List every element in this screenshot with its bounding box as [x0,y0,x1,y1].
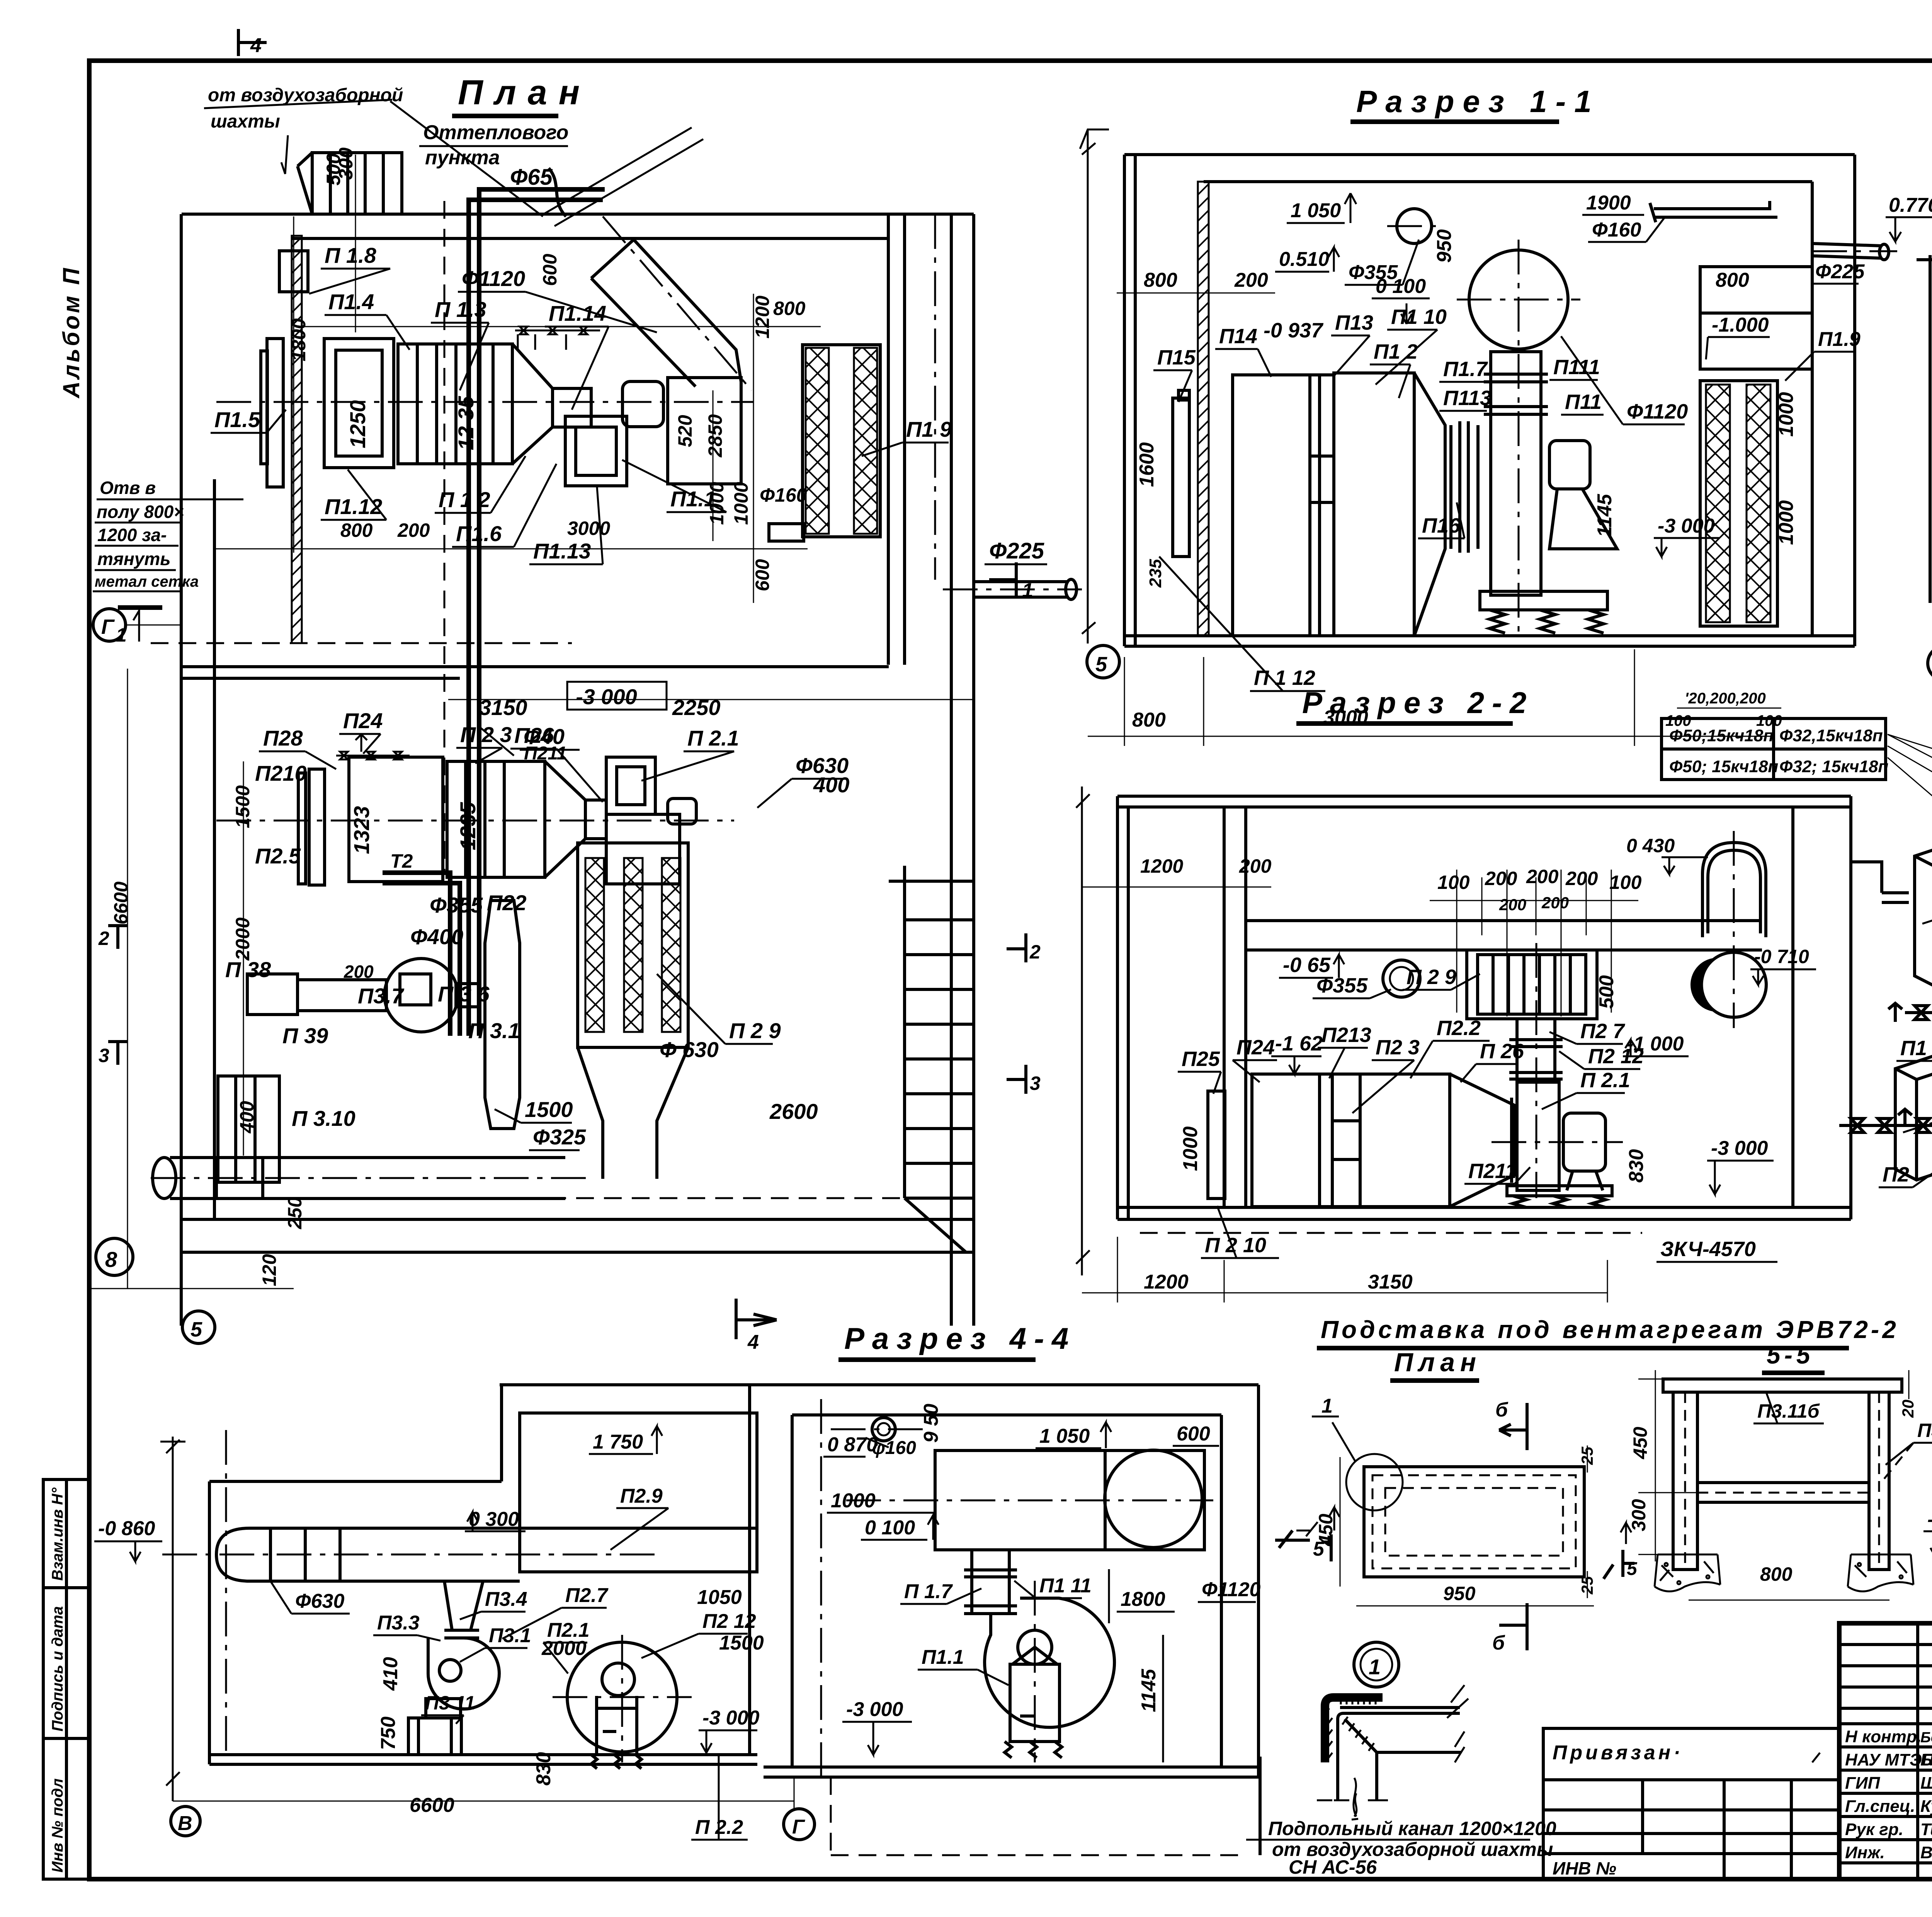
mark 1 top [1312,1416,1339,1418]
bubble 5 3-3 [1928,646,1932,680]
left reference line with 5 bubble [1080,129,1109,644]
svg-text:1145: 1145 [1138,1668,1160,1712]
svg-text:235: 235 [1146,559,1165,588]
svg-text:Подставка под вентагрегат ЭРВ7: Подставка под вентагрегат ЭРВ72-2 [1321,1316,1899,1343]
П2.9 housing 4-4 [520,1413,757,1572]
svg-text:800: 800 [340,519,373,541]
svg-text:1200: 1200 [1144,1271,1189,1293]
П1.9 right box [1700,267,1812,369]
svg-text:1235: 1235 [456,802,480,850]
svg-text:600: 600 [539,254,561,286]
svg-text:П11: П11 [1565,390,1602,414]
section mark 1 right [989,562,1016,597]
svg-text:6600: 6600 [410,1794,454,1817]
svg-text:-0 710: -0 710 [1754,946,1809,967]
svg-text:800: 800 [773,298,806,319]
dashed mid lines [151,201,974,1198]
dim texts upper room [288,147,807,591]
album label rotated [58,266,84,399]
subtitle План [1390,1348,1481,1381]
svg-text:П211: П211 [1468,1159,1517,1183]
svg-text:Рук гр.: Рук гр. [1845,1820,1903,1839]
svg-text:П15: П15 [1157,346,1196,369]
svg-text:П 2 3: П 2 3 [460,722,512,747]
svg-text:0.770: 0.770 [1889,194,1932,216]
note Оттеплового пункта [419,121,703,226]
svg-text:П1.5: П1.5 [214,407,260,432]
svg-text:П3.3: П3.3 [377,1612,420,1634]
svg-text:Инж.: Инж. [1845,1843,1885,1862]
svg-text:Варламова: Варламова [1920,1843,1932,1862]
svg-text:полу 800×: полу 800× [97,502,184,522]
svg-text:В: В [178,1812,192,1835]
П1.8 box on wall [279,251,308,292]
fan П1.1 [985,1598,1114,1758]
svg-text:200: 200 [397,519,430,541]
svg-text:Шелевиля: Шелевиля [1920,1774,1932,1793]
svg-text:410: 410 [379,1657,402,1691]
bottom dim 4-4 [173,1778,794,1809]
title Разрез 4-4 [838,1321,1076,1360]
svg-text:П 38: П 38 [225,957,271,982]
П1 5 panel [1173,390,1189,557]
svg-text:100: 100 [1609,872,1642,893]
filter П19 [803,345,880,537]
svg-text:400: 400 [813,773,849,797]
svg-text:φ160: φ160 [872,1438,916,1458]
ceiling and walls 4-4 [209,1385,1259,1764]
bottom dim line 1-1 [1088,293,1774,746]
svg-text:П2: П2 [1883,1163,1909,1186]
svg-text:П3.4: П3.4 [485,1588,527,1611]
П3 fan unit plan [247,958,479,1032]
svg-text:П3.7: П3.7 [358,984,405,1008]
fan П2.1 2-2 [1507,1082,1612,1207]
svg-text:П1.13: П1.13 [533,539,591,563]
Подпольный канал text [1246,1778,1556,1878]
svg-text:шахты: шахты [211,111,280,132]
svg-text:-3 000: -3 000 [702,1707,760,1729]
dim lines upper [214,155,821,603]
svg-text:1000: 1000 [1775,500,1798,545]
svg-text:120: 120 [259,1254,280,1286]
fan inlet circle [1469,250,1568,349]
svg-text:П 39: П 39 [282,1023,328,1048]
section mark 4 top [238,29,267,56]
svg-text:800: 800 [1132,709,1166,731]
frame 5-5 [1663,1379,1902,1570]
svg-text:П 1 2: П 1 2 [439,487,490,512]
title План [452,73,591,116]
svg-text:200: 200 [1499,896,1526,914]
svg-text:2: 2 [98,928,109,949]
П1 equipment train [261,339,741,487]
svg-text:Кукареко: Кукареко [1920,1797,1932,1816]
svg-text:от воздухозаборной: от воздухозаборной [208,85,403,106]
valve spec table 2-2 [1662,718,1886,780]
svg-text:П3.11а: П3.11а [1917,1420,1932,1441]
svg-text:П 2.1: П 2.1 [1580,1069,1630,1092]
right capsule duct 2-2 [1702,843,1766,937]
left margin stamp tables [43,1479,89,1879]
svg-text:Подпольный канал 1200×1200: Подпольный канал 1200×1200 [1268,1818,1556,1839]
svg-text:П 2.1: П 2.1 [687,726,739,750]
svg-text:-1 000: -1 000 [1627,1033,1684,1055]
svg-text:Альбом П: Альбом П [58,266,84,399]
dims and labels 4-4 [295,1431,764,1839]
air intake shaft [298,153,402,214]
Ф160 opening [872,1418,895,1441]
staircase lower right [889,866,974,1252]
big duct Ф630 plan [153,1158,565,1199]
svg-text:Ф225: Ф225 [989,538,1044,564]
svg-text:8: 8 [105,1247,117,1272]
svg-text:Г: Г [101,615,115,638]
svg-text:'20‚200‚200: '20‚200‚200 [1685,690,1766,707]
section mark 4 bottom [736,1299,777,1339]
svg-text:П213: П213 [1321,1023,1371,1047]
svg-text:П 1.7: П 1.7 [904,1580,953,1603]
svg-text:1050: 1050 [697,1586,742,1609]
duct below box [964,1550,1017,1614]
svg-text:520: 520 [674,415,696,447]
П1 heater block [1915,839,1932,987]
labels 2-2 [1182,953,1756,1261]
svg-text:-3 000: -3 000 [1927,1508,1932,1530]
П2 fan 4-4 [567,1642,677,1769]
left dim line 4-4 [160,1437,185,1801]
Ф225 pipe right 1-1 [1812,243,1889,260]
svg-text:20: 20 [1899,1399,1917,1418]
svg-text:500: 500 [1595,975,1618,1009]
svg-text:5: 5 [190,1318,202,1341]
svg-text:Оттеплового: Оттеплового [423,121,568,144]
0.770 level mark [1886,194,1932,242]
svg-text:3: 3 [1030,1073,1041,1094]
svg-text:План: План [1394,1348,1481,1377]
section marks 2 3 right [1007,933,1026,1094]
svg-text:Г: Г [792,1816,805,1838]
svg-text:Н контр.: Н контр. [1845,1727,1922,1746]
svg-text:Титова: Титова [1920,1820,1932,1839]
labels lower room [225,695,849,1149]
5 mark [1604,1550,1634,1579]
svg-text:П1.7: П1.7 [1443,358,1488,381]
svg-text:Гл.спец.: Гл.спец. [1845,1797,1915,1816]
svg-text:830: 830 [532,1752,555,1786]
svg-text:1250: 1250 [345,400,370,448]
svg-text:Т2: Т2 [390,850,413,872]
dims lower [110,785,374,1286]
svg-text:Белоцерковская: Белоцерковская [1920,1730,1932,1746]
svg-text:2000: 2000 [232,918,253,961]
svg-text:-3 000: -3 000 [1711,1137,1768,1159]
svg-text:Ф160: Ф160 [1592,219,1641,241]
big diagonal duct Ф1120 [591,240,741,386]
fan riser duct [1484,352,1548,595]
svg-text:П1.9: П1.9 [1818,328,1861,351]
svg-text:2250: 2250 [672,695,721,720]
svg-text:П3.11б: П3.11б [1757,1400,1820,1422]
grid bubble B mid [96,1238,133,1275]
svg-text:5: 5 [1627,1559,1638,1579]
svg-text:1000: 1000 [1179,1126,1202,1171]
section marks 6 [1499,1403,1527,1650]
П2 supply pipes with valves [1839,1109,1932,1132]
Ф225 pipe right [974,579,1077,599]
plan outer walls [181,214,974,1326]
svg-text:П1.6: П1.6 [456,521,502,546]
svg-text:Ф50;15кч18п: Ф50;15кч18п [1669,726,1774,745]
silencer П2.9 plan [578,843,688,1047]
svg-text:750: 750 [377,1716,400,1750]
title [1317,1316,1899,1348]
svg-text:Разрез 1-1: Разрез 1-1 [1356,84,1600,119]
dims labels MB [827,1404,1261,1721]
svg-text:П2 7: П2 7 [1580,1020,1626,1043]
svg-text:Ф325: Ф325 [533,1125,586,1149]
hatched wall strip upper [292,236,302,643]
hatched wall left [1198,182,1209,636]
svg-text:1900: 1900 [1586,192,1631,214]
svg-text:1500: 1500 [525,1097,573,1122]
Ф355 circle top [1397,209,1432,243]
labels upper room [214,243,952,563]
svg-text:4: 4 [250,34,262,57]
svg-text:-3 000: -3 000 [1658,515,1715,537]
svg-text:ГИП: ГИП [1845,1774,1881,1793]
svg-text:600: 600 [1177,1423,1210,1445]
svg-text:П 2 9: П 2 9 [1406,965,1456,989]
svg-text:Беганская: Беганская [1920,1750,1932,1769]
svg-text:Ф400: Ф400 [410,924,463,949]
svg-text:метал сетка: метал сетка [95,573,199,590]
valve row П24 [336,734,410,759]
section mark 3 left [108,1042,128,1065]
svg-text:П113: П113 [1443,386,1492,410]
base frame and springs [1480,591,1607,633]
Привязан box [1543,1728,1839,1879]
duct band 2-2 [1246,921,1762,950]
svg-text:1: 1 [1321,1395,1333,1417]
funnel from П2.9 to duct [578,1047,688,1179]
svg-text:300: 300 [1628,1499,1650,1531]
svg-text:12 35: 12 35 [454,396,478,450]
svg-text:-0 860: -0 860 [98,1517,155,1540]
svg-text:П210: П210 [255,761,307,785]
dims plan [1315,1447,1596,1604]
room shell 1-1 [1124,155,1855,646]
svg-text:800: 800 [1716,269,1749,291]
svg-text:1 050: 1 050 [1039,1425,1090,1447]
svg-text:300: 300 [335,147,357,180]
svg-text:П 3.1: П 3.1 [468,1018,520,1043]
Ф630 capsule duct [216,1528,520,1581]
note от воздухозаборной шахты [204,85,543,216]
-3.000 boxed level [567,682,667,710]
-0.860 level [94,1517,162,1561]
svg-text:тянуть: тянуть [97,549,171,569]
svg-text:5-5: 5-5 [1767,1341,1814,1369]
T2 pipe lower room [383,873,460,1036]
svg-text:П1 11: П1 11 [1039,1575,1092,1597]
corner circle detail mark [1346,1454,1403,1510]
svg-text:П 1.8: П 1.8 [325,243,377,267]
svg-text:1200: 1200 [1140,855,1183,877]
svg-text:830: 830 [1625,1149,1648,1183]
svg-text:Ф160: Ф160 [760,484,807,506]
svg-text:-0 65: -0 65 [1283,953,1331,977]
svg-text:200: 200 [1234,269,1268,291]
bubble 5 bottom plan [182,1311,215,1343]
svg-text:6600: 6600 [110,882,132,924]
svg-text:950: 950 [1443,1583,1476,1604]
svg-text:Разрез 4-4: Разрез 4-4 [844,1321,1076,1355]
svg-text:-0 937: -0 937 [1264,319,1324,342]
corner detail drawing [1325,1697,1383,1762]
svg-text:План: План [458,73,591,112]
big boxes [1233,373,1478,636]
svg-text:3150: 3150 [479,695,527,720]
svg-text:НАУ МТЭП: НАУ МТЭП [1845,1750,1932,1769]
svg-text:1000: 1000 [831,1490,876,1512]
left wall column 3-3 [1917,255,1932,603]
fan lines from spec table [1888,734,1932,862]
svg-text:П1.4: П1.4 [328,289,374,314]
personnel rows [1845,1727,1932,1862]
dims 2-2 top [1140,835,1809,967]
base frame plan [1364,1467,1584,1577]
svg-text:П2.5: П2.5 [255,844,301,868]
svg-text:1500: 1500 [232,785,253,828]
svg-text:СН АС-56: СН АС-56 [1289,1856,1377,1878]
svg-text:1: 1 [1022,579,1033,602]
svg-text:200: 200 [1526,866,1559,887]
svg-text:3000: 3000 [567,518,610,539]
filters right 1-1 [1700,381,1777,626]
svg-text:250: 250 [284,1197,306,1229]
section mark 5 right [1275,1531,1331,1561]
svg-text:Ф1120: Ф1120 [462,266,525,291]
svg-text:0 430: 0 430 [1626,835,1675,856]
svg-text:П2 12: П2 12 [702,1610,756,1633]
svg-text:П2.7: П2.7 [565,1584,609,1607]
svg-text:П13: П13 [1335,311,1373,334]
svg-text:0 870: 0 870 [827,1433,878,1456]
П2 equipment train [298,757,696,885]
svg-text:Ф50; 15кч18п: Ф50; 15кч18п [1669,757,1778,776]
svg-text:0 100: 0 100 [865,1517,915,1539]
П1 supply pipes [1851,862,1932,1022]
Отв в полу note [93,478,243,646]
svg-text:2850: 2850 [704,414,726,458]
svg-text:П22: П22 [487,890,527,915]
svg-text:1200: 1200 [752,296,773,339]
svg-text:600: 600 [752,559,773,591]
svg-text:Ф32,15кч18п: Ф32,15кч18п [1779,726,1883,745]
subfloor dashed 2-2 [1140,1232,1642,1234]
leaders lower labels [259,734,846,1150]
svg-text:П1 10: П1 10 [1391,305,1447,329]
svg-text:800: 800 [1760,1563,1793,1585]
room shell 2-2 [1117,796,1851,1219]
room shell [764,1385,1259,1777]
svg-text:Взам.инв Н°: Взам.инв Н° [49,1487,66,1581]
svg-text:б: б [1495,1399,1509,1421]
svg-text:450: 450 [1629,1427,1651,1459]
svg-text:Привязан·: Привязан· [1553,1742,1683,1764]
centerlines equipment trains [216,401,753,403]
grid bubble Г [93,609,181,641]
svg-text:Инв № подл: Инв № подл [49,1778,66,1873]
leader lines 1-1 [1153,193,1859,691]
svg-text:0 100: 0 100 [1376,275,1426,298]
svg-text:П1 2: П1 2 [1374,340,1418,363]
svg-text:П28: П28 [263,726,303,750]
section mark 2 left [108,926,128,949]
svg-text:-3 000: -3 000 [576,684,637,709]
svg-text:П24: П24 [1236,1036,1275,1059]
svg-text:Отв в: Отв в [100,478,156,498]
svg-text:1800: 1800 [1121,1588,1165,1611]
svg-text:200: 200 [1541,894,1569,912]
Ф355 vertical duct [485,901,520,1129]
svg-text:ЗКЧ-4570: ЗКЧ-4570 [1660,1238,1756,1261]
svg-text:П3 11: П3 11 [425,1692,475,1714]
svg-text:П24: П24 [343,708,383,733]
svg-text:П16: П16 [1422,514,1461,537]
svg-text:П 3 6: П 3 6 [438,982,490,1006]
svg-text:Ф65: Ф65 [510,165,553,190]
П3.10 box [218,1076,279,1182]
dims 5-5 [1628,1399,1932,1585]
Ф355 opening [1383,960,1420,997]
svg-text:1600: 1600 [1136,442,1158,487]
bubble 1 [1354,1642,1399,1687]
svg-text:1000: 1000 [1775,392,1798,437]
svg-text:П2.9: П2.9 [620,1485,663,1507]
svg-text:П 3.10: П 3.10 [292,1106,355,1130]
motor 1-1 [1549,441,1617,549]
svg-text:П1: П1 [1900,1037,1927,1060]
svg-text:4: 4 [747,1331,759,1353]
feet 5-5 [1655,1554,1913,1592]
svg-text:0.510: 0.510 [1279,248,1329,271]
svg-text:Ф225: Ф225 [1815,260,1865,283]
svg-text:1500: 1500 [719,1632,764,1654]
svg-text:1145: 1145 [1594,494,1616,537]
svg-text:П2.2: П2.2 [1437,1016,1481,1040]
title Разрез 2-2 [1296,686,1534,724]
svg-text:200: 200 [1565,868,1598,889]
svg-text:П1.1: П1.1 [670,487,716,511]
svg-text:3150: 3150 [1368,1271,1413,1293]
svg-text:Подпись и дата: Подпись и дата [49,1606,66,1731]
leaders 2-2 [1178,955,1777,1262]
svg-text:1000: 1000 [730,482,752,525]
П3 funnel and fan 4-4 [408,1581,499,1755]
title Разрез 1-1 [1350,84,1600,122]
svg-text:400: 400 [236,1101,258,1134]
svg-text:Ф 630: Ф 630 [660,1037,719,1062]
Ф160 stub [769,524,804,541]
right corridor wall [950,214,953,1326]
svg-text:П1.1: П1.1 [922,1646,964,1668]
svg-text:П1 9: П1 9 [906,417,952,441]
duct below П2.9 [1509,1019,1563,1082]
svg-text:-3 000: -3 000 [846,1698,903,1721]
grid bubbles В Г [171,1806,815,1840]
